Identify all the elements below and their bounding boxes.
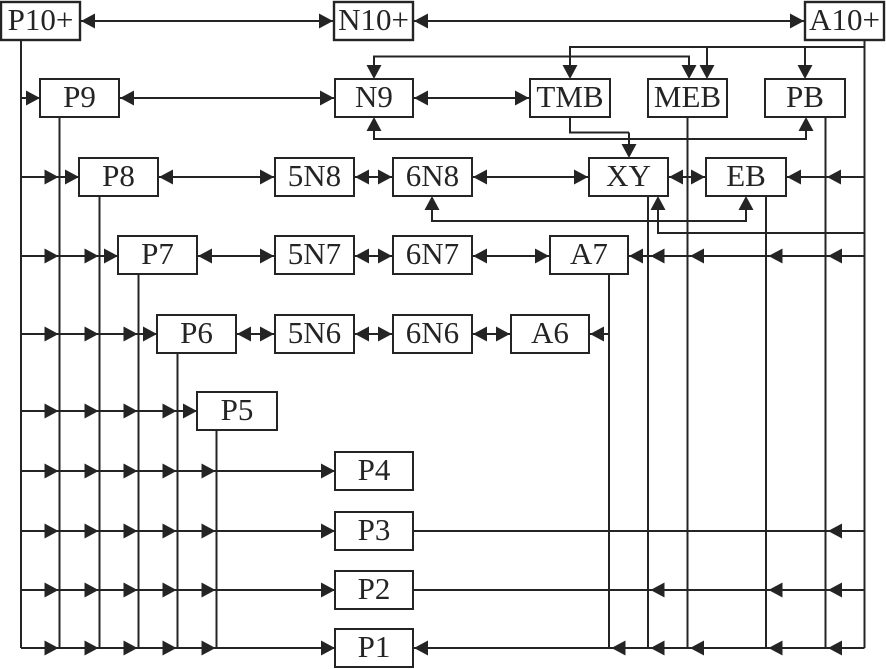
svg-text:5N6: 5N6 <box>288 315 341 350</box>
rail down from EB at x=766 <box>765 196 767 648</box>
svg-text:6N7: 6N7 <box>406 236 459 271</box>
box 5N8 <box>275 158 354 196</box>
wire from A7 rail to A6 right <box>589 327 609 342</box>
wire 6N7 to A7 (double arrow) <box>472 249 550 264</box>
bus wire from A10+ rail to TMB MEB PB tops <box>563 46 865 79</box>
wire between N9 bottom and PB bottom <box>367 117 814 140</box>
bus wire from right rail into P1 <box>413 641 865 656</box>
wire N10+ to A10+ (double arrow) <box>413 14 805 29</box>
svg-text:6N6: 6N6 <box>406 315 459 350</box>
rail down from P5 at x=216.5 <box>216 430 218 648</box>
bus wire from right rail into EB <box>786 170 865 185</box>
wire P8 to 5N8 (double arrow) <box>158 170 275 185</box>
box A7 <box>550 236 628 274</box>
rail down from P10+ at x=21 <box>20 40 22 648</box>
box 5N7 <box>275 236 354 274</box>
svg-text:P4: P4 <box>358 452 391 487</box>
feeder wire from left trunk to P8 <box>21 170 79 185</box>
svg-text:EB: EB <box>726 158 766 193</box>
svg-text:N9: N9 <box>355 79 393 114</box>
wire 5N7 to 6N7 (double arrow) <box>354 249 393 264</box>
svg-text:P6: P6 <box>180 315 213 350</box>
box A10+ <box>805 2 884 40</box>
feeder wire from left trunk to P5 <box>21 404 197 419</box>
svg-text:5N8: 5N8 <box>288 158 341 193</box>
wire 6N6 to A6 (double arrow) <box>472 327 511 342</box>
wire P6 to 5N6 (double arrow) <box>236 327 275 342</box>
box 5N6 <box>275 315 354 353</box>
svg-text:N10+: N10+ <box>338 2 409 37</box>
box MEB <box>648 79 727 117</box>
feeder wire from left trunk to P7 <box>21 249 118 264</box>
svg-text:P9: P9 <box>63 79 96 114</box>
box EB <box>706 158 786 196</box>
wire P9 to N9 (double arrow) <box>119 91 335 106</box>
feeder wire from left trunk to P4 <box>21 464 335 479</box>
box PB <box>765 79 845 117</box>
rail down from P8 at x=99.5 <box>99 196 101 648</box>
svg-text:P3: P3 <box>358 512 391 547</box>
svg-text:P7: P7 <box>141 236 174 271</box>
svg-text:6N8: 6N8 <box>406 158 459 193</box>
box P4 <box>335 452 413 490</box>
box 6N6 <box>393 315 472 353</box>
feeder wire from left trunk to P1 <box>21 641 335 656</box>
wire between N9 top and MEB top <box>367 56 697 80</box>
svg-text:P10+: P10+ <box>8 2 74 37</box>
svg-text:5N7: 5N7 <box>288 236 341 271</box>
box N9 <box>335 79 413 117</box>
box TMB <box>530 79 610 117</box>
box P5 <box>197 392 277 430</box>
rail down from MEB at x=687.5 <box>687 117 689 648</box>
svg-text:P8: P8 <box>102 158 135 193</box>
box P1 <box>335 629 413 667</box>
box P3 <box>335 512 413 550</box>
wire 6N8 to XY (double arrow) <box>472 170 589 185</box>
box N10+ <box>334 2 413 40</box>
rail down from A7 at x=609 <box>608 274 610 648</box>
svg-text:A7: A7 <box>570 236 608 271</box>
svg-text:MEB: MEB <box>654 79 721 114</box>
svg-text:TMB: TMB <box>536 79 603 114</box>
box P7 <box>118 236 197 274</box>
box P9 <box>40 79 119 117</box>
wire P7 to 5N7 (double arrow) <box>197 249 275 264</box>
wire TMB bottom to XY top <box>570 117 637 158</box>
box P2 <box>335 571 413 609</box>
rail down from P7 at x=138.5 <box>138 274 140 648</box>
rail down from P6 at x=177.5 <box>177 353 179 648</box>
svg-text:P5: P5 <box>221 392 254 427</box>
svg-text:A10+: A10+ <box>809 2 880 37</box>
svg-text:PB: PB <box>786 79 824 114</box>
box 6N7 <box>393 236 472 274</box>
svg-text:P1: P1 <box>358 629 391 664</box>
box XY <box>589 158 668 196</box>
wire 5N6 to 6N6 (double arrow) <box>354 327 393 342</box>
svg-text:XY: XY <box>606 158 651 193</box>
wire 5N8 to 6N8 (double arrow) <box>354 170 393 185</box>
bus wire from right rail into A7 <box>628 249 865 264</box>
wire P2 right to A10+ rail <box>413 583 865 598</box>
rail down from P9 at x=59.5 <box>59 117 61 648</box>
wire XY to EB (double arrow) <box>668 170 706 185</box>
feeder wire from left trunk to P3 <box>21 524 335 539</box>
feeder wire from left trunk to P9 <box>21 91 40 106</box>
rail down from PB at x=825.5 <box>825 117 827 648</box>
wire N9 to TMB (double arrow) <box>413 91 530 106</box>
box P10+ <box>1 2 80 40</box>
svg-text:P2: P2 <box>358 571 391 606</box>
rail down from XY at x=648 <box>647 196 649 648</box>
wire P3 right to A10+ rail <box>413 524 865 539</box>
box 6N8 <box>393 158 472 196</box>
feeder wire from left trunk to P2 <box>21 583 335 598</box>
wire between 6N8 bottom and EB bottom <box>425 196 754 222</box>
wire P10+ to N10+ (double arrow) <box>80 14 334 29</box>
wire from A10+ rail to XY bottom <box>651 196 865 234</box>
feeder wire from left trunk to P6 <box>21 327 157 342</box>
box A6 <box>511 315 589 353</box>
box P8 <box>79 158 158 196</box>
box P6 <box>157 315 236 353</box>
rail down from A10+ at x=864.5 <box>864 40 866 648</box>
svg-text:A6: A6 <box>531 315 569 350</box>
